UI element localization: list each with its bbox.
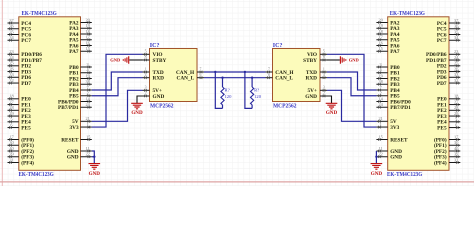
svg-text:39: 39 xyxy=(454,152,458,157)
module A2 left pins GND GND with pin numbers xyxy=(376,146,402,161)
svg-text:1: 1 xyxy=(323,67,325,71)
module A1 EK-TM4C123G LaunchPad (left) body xyxy=(19,17,81,171)
transceiver IC? (right) pin 8 STBY xyxy=(303,55,327,64)
svg-text:32: 32 xyxy=(9,78,13,83)
ground GND below right MCP2562 xyxy=(326,103,338,116)
wire 5V+ to 5V (right) xyxy=(327,90,376,121)
svg-text:1: 1 xyxy=(145,67,147,71)
svg-text:CAN_L: CAN_L xyxy=(177,76,195,82)
svg-text:PB7/PD1: PB7/PD1 xyxy=(390,105,411,111)
module A2 EK-TM4C123G LaunchPad (right) body xyxy=(388,17,449,171)
svg-text:40: 40 xyxy=(9,146,13,151)
wire net CAN_L bus xyxy=(204,77,266,79)
module A1 left pins PC4-PC7 with pin numbers xyxy=(8,18,32,44)
transceiver IC? (left) pin 8 STBY xyxy=(143,55,167,64)
wire TXD to PB4 (right) xyxy=(327,72,376,90)
wire TXD to PB4 (left) xyxy=(92,72,143,90)
svg-text:GND: GND xyxy=(67,155,79,161)
transceiver IC? MCP2562 (right) body xyxy=(273,49,321,102)
svg-text:22: 22 xyxy=(85,152,89,157)
svg-text:PD7: PD7 xyxy=(437,81,447,87)
module A1 value label EK-TM4C123G (bottom) xyxy=(19,172,54,178)
svg-text:5: 5 xyxy=(10,117,12,122)
module A1 right pin RESET with pin number xyxy=(61,134,92,143)
module A1 name label EK-TM4C123G (top) xyxy=(22,11,57,17)
ground GND at STBY (right MCP2562) xyxy=(340,56,359,63)
transceiver IC? (right) pin 5 VIO xyxy=(307,50,327,59)
module A2 left pins 5V and 3V3 with pin numbers xyxy=(376,116,399,131)
svg-text:20: 20 xyxy=(378,17,382,22)
transceiver IC? (right) pin 4 RXD xyxy=(306,73,327,82)
ground GND below right board xyxy=(371,164,383,178)
svg-text:30: 30 xyxy=(454,140,458,145)
svg-text:19: 19 xyxy=(85,73,89,78)
svg-text:29: 29 xyxy=(454,111,458,116)
svg-text:EK-TM4C123G: EK-TM4C123G xyxy=(390,11,425,17)
wire termination loop 1 xyxy=(215,72,222,108)
wire GND pins to ground (left board) xyxy=(92,151,95,164)
svg-text:GND: GND xyxy=(349,58,360,63)
svg-text:PC7: PC7 xyxy=(21,38,31,44)
transceiver IC? (right) value label MCP2562 xyxy=(273,104,297,110)
module A1 left pins (PF0)-(PF4) with pin numbers xyxy=(8,134,35,166)
svg-text:25: 25 xyxy=(454,61,458,66)
svg-text:GND: GND xyxy=(110,58,121,63)
transceiver IC? (left) pin 7 CAN_H xyxy=(176,67,204,76)
svg-text:EK-TM4C123G: EK-TM4C123G xyxy=(387,172,422,178)
svg-text:5: 5 xyxy=(145,50,147,54)
module A2 left pin RESET with pin number xyxy=(376,134,408,143)
resistor R? (termination 2) name label xyxy=(254,88,259,93)
svg-text:15: 15 xyxy=(86,134,90,139)
module A1 right pins PA2-PA7 with pin numbers xyxy=(69,17,92,55)
transceiver IC? (right) name label xyxy=(273,43,283,49)
svg-text:29: 29 xyxy=(9,111,13,116)
svg-text:33: 33 xyxy=(454,72,458,77)
junction GND net (right board) xyxy=(375,156,377,158)
wire termination loop 2 xyxy=(245,72,252,108)
transceiver IC? (right) pin 1 TXD xyxy=(306,67,327,76)
junction CAN_H tap 1 xyxy=(214,71,216,73)
svg-text:35: 35 xyxy=(9,29,13,34)
wire STBY to ground (right) xyxy=(327,59,340,61)
svg-text:8: 8 xyxy=(145,55,147,59)
svg-text:31: 31 xyxy=(454,157,458,162)
svg-text:4: 4 xyxy=(145,73,147,77)
transceiver IC? (right) pin 6 CAN_L xyxy=(266,73,294,82)
svg-text:GND: GND xyxy=(371,171,383,177)
svg-text:R?: R? xyxy=(254,88,259,93)
module A1 right pins GND GND with pin numbers xyxy=(67,146,92,161)
junction CAN_L tap 1 xyxy=(221,77,223,79)
svg-text:7: 7 xyxy=(200,67,202,71)
transceiver IC? (right) pin 2 GND xyxy=(305,91,327,100)
transceiver IC? (right) pin 3 5V+ xyxy=(308,86,328,95)
svg-text:6: 6 xyxy=(268,73,270,77)
module A2 value label EK-TM4C123G (bottom) xyxy=(387,172,422,178)
svg-text:MCP2562: MCP2562 xyxy=(273,104,297,110)
module A2 left pins PB0-PB7/PD1 with pin numbers xyxy=(376,62,411,111)
module A2 right pins PE0-PE5 with pin numbers xyxy=(437,94,460,132)
svg-text:3V3: 3V3 xyxy=(390,125,399,131)
svg-text:19: 19 xyxy=(378,23,382,28)
resistor R? 120 (termination 1) xyxy=(221,87,224,105)
svg-text:5: 5 xyxy=(455,117,457,122)
svg-text:GND: GND xyxy=(89,171,101,177)
svg-text:3: 3 xyxy=(145,86,147,90)
svg-text:PE5: PE5 xyxy=(437,125,447,131)
svg-text:15: 15 xyxy=(85,46,89,51)
resistor R? 120 (termination 2) xyxy=(251,87,254,105)
svg-text:4: 4 xyxy=(323,73,325,77)
svg-text:3V3: 3V3 xyxy=(69,125,78,131)
svg-text:40: 40 xyxy=(454,146,458,151)
transceiver IC? (left) pin 6 CAN_L xyxy=(177,73,204,82)
svg-text:18: 18 xyxy=(454,94,458,99)
wire STBY to ground (left) xyxy=(129,59,142,61)
svg-text:GND: GND xyxy=(305,94,317,100)
svg-text:3: 3 xyxy=(323,86,325,90)
module A1 left pins PE0-PE5 with pin numbers xyxy=(8,94,32,132)
resistor R? (termination 1) value label 120 xyxy=(225,94,233,99)
svg-text:GND: GND xyxy=(390,155,402,161)
svg-text:EK-TM4C123G: EK-TM4C123G xyxy=(22,11,57,17)
svg-text:25: 25 xyxy=(9,61,13,66)
svg-text:PB7/PD1: PB7/PD1 xyxy=(58,105,79,111)
svg-text:RXD: RXD xyxy=(306,76,318,82)
module A1 right pins PB0-PB7/PD1 with pin numbers xyxy=(58,62,92,111)
wire GND pin to ground (right MCP2562) xyxy=(327,96,332,103)
wire RXD to PB5 (left) xyxy=(92,78,143,96)
svg-text:21: 21 xyxy=(85,116,89,121)
svg-text:19: 19 xyxy=(85,23,89,28)
junction CAN_H tap 2 xyxy=(244,71,246,73)
svg-text:21: 21 xyxy=(378,116,382,121)
svg-text:39: 39 xyxy=(9,152,13,157)
wire GND pin to ground (left MCP2562) xyxy=(137,96,143,103)
svg-text:(PF4): (PF4) xyxy=(434,159,447,166)
ground GND at STBY (left MCP2562) xyxy=(110,56,128,63)
junction GND net (left board) xyxy=(93,156,95,158)
svg-text:120: 120 xyxy=(254,94,262,99)
svg-text:15: 15 xyxy=(378,134,382,139)
resistor R? (termination 2) value label 120 xyxy=(254,94,262,99)
wire VIO to 3V3 (left) xyxy=(92,54,143,127)
svg-text:STBY: STBY xyxy=(153,58,167,64)
svg-text:PE5: PE5 xyxy=(21,125,31,131)
wire GND pins to ground (right board) xyxy=(375,151,377,164)
svg-text:120: 120 xyxy=(225,94,233,99)
svg-text:11: 11 xyxy=(379,146,383,151)
svg-text:PD7: PD7 xyxy=(21,81,31,87)
module A1 left pins PD0/PB6-PD7 with pin numbers xyxy=(8,49,43,87)
ground GND below left MCP2562 xyxy=(131,103,143,116)
transceiver IC? (left) pin 4 RXD xyxy=(143,73,165,82)
svg-text:11: 11 xyxy=(86,146,90,151)
svg-text:30: 30 xyxy=(9,140,13,145)
svg-text:PA7: PA7 xyxy=(390,49,400,55)
wire RXD to PB5 (right) xyxy=(327,78,376,96)
transceiver IC? MCP2562 (left) body xyxy=(150,49,198,102)
svg-text:(PF4): (PF4) xyxy=(21,159,34,166)
transceiver IC? (left) name label xyxy=(150,43,160,49)
svg-text:2: 2 xyxy=(87,91,89,96)
svg-text:19: 19 xyxy=(378,73,382,78)
svg-text:3: 3 xyxy=(380,62,382,67)
svg-text:15: 15 xyxy=(378,46,382,51)
svg-text:PA7: PA7 xyxy=(69,49,79,55)
module A2 left pins PA2-PA7 with pin numbers xyxy=(376,17,399,55)
svg-text:23: 23 xyxy=(454,49,458,54)
svg-text:RXD: RXD xyxy=(153,76,165,82)
svg-text:20: 20 xyxy=(85,17,89,22)
svg-text:MCP2562: MCP2562 xyxy=(150,104,174,110)
svg-text:1: 1 xyxy=(87,122,89,127)
module A2 right pins PC4-PC7 with pin numbers xyxy=(437,18,460,44)
svg-text:31: 31 xyxy=(9,157,13,162)
module A2 name label EK-TM4C123G (top) xyxy=(390,11,425,17)
svg-text:38: 38 xyxy=(378,79,382,84)
transceiver IC? (left) value label MCP2562 xyxy=(150,104,174,110)
module A2 right pins (PF0)-(PF4) with pin numbers xyxy=(434,134,460,166)
transceiver IC? (right) pin 7 CAN_H xyxy=(266,67,295,76)
junction CAN_L tap 2 xyxy=(251,77,253,79)
svg-text:5: 5 xyxy=(323,50,325,54)
svg-text:GND: GND xyxy=(131,110,143,116)
svg-text:35: 35 xyxy=(454,29,458,34)
svg-text:1: 1 xyxy=(380,122,382,127)
svg-text:EK-TM4C123G: EK-TM4C123G xyxy=(19,172,54,178)
svg-text:2: 2 xyxy=(380,91,382,96)
svg-text:22: 22 xyxy=(378,152,382,157)
ground GND below left board xyxy=(89,164,101,178)
module A2 right pins PD0/PB6-PD7 with pin numbers xyxy=(426,49,460,87)
resistor R? (termination 1) name label xyxy=(225,88,230,93)
svg-text:18: 18 xyxy=(9,94,13,99)
svg-text:RESET: RESET xyxy=(61,137,79,143)
svg-text:32: 32 xyxy=(454,78,458,83)
svg-text:28: 28 xyxy=(9,105,13,110)
svg-text:IC?: IC? xyxy=(150,43,160,49)
transceiver IC? (left) pin 3 5V+ xyxy=(143,86,163,95)
svg-text:23: 23 xyxy=(9,49,13,54)
svg-text:3: 3 xyxy=(87,62,89,67)
svg-text:2: 2 xyxy=(323,91,325,95)
svg-text:PC7: PC7 xyxy=(437,38,447,44)
svg-text:33: 33 xyxy=(9,72,13,77)
svg-text:IC?: IC? xyxy=(273,43,283,49)
svg-text:RESET: RESET xyxy=(390,137,408,143)
svg-text:38: 38 xyxy=(85,79,89,84)
wire net CAN_H bus xyxy=(204,71,266,73)
svg-text:6: 6 xyxy=(200,73,202,77)
wire VIO to 3V3 (right) xyxy=(327,54,376,127)
svg-text:STBY: STBY xyxy=(303,58,317,64)
svg-text:7: 7 xyxy=(268,67,270,71)
svg-text:28: 28 xyxy=(454,105,458,110)
svg-text:8: 8 xyxy=(323,55,325,59)
svg-text:GND: GND xyxy=(153,94,165,100)
svg-text:2: 2 xyxy=(145,91,147,95)
svg-text:CAN_L: CAN_L xyxy=(275,76,293,82)
svg-text:18: 18 xyxy=(378,29,382,34)
wire 5V+ to 5V (left) xyxy=(92,90,143,121)
transceiver IC? (left) pin 5 VIO xyxy=(143,50,163,59)
svg-text:GND: GND xyxy=(326,110,338,116)
transceiver IC? (left) pin 2 GND xyxy=(143,91,165,100)
module A1 right pins 5V and 3V3 with pin numbers xyxy=(69,116,91,131)
svg-text:18: 18 xyxy=(85,29,89,34)
svg-text:R?: R? xyxy=(225,88,230,93)
transceiver IC? (left) pin 1 TXD xyxy=(143,67,164,76)
